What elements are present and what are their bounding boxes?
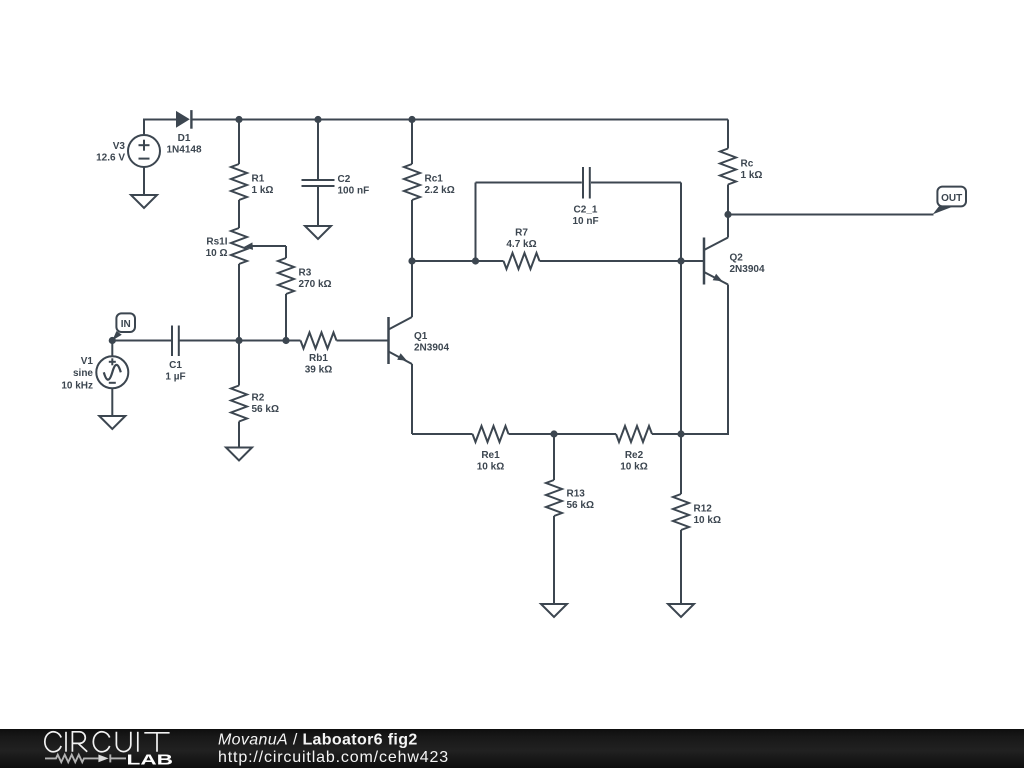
svg-text:C2_1: C2_1 [574,205,598,216]
resistor Rc 1 k [720,149,762,215]
wire V1 bottom [111,388,113,416]
logo resistor-diode [45,754,126,762]
wire top rail [191,119,728,121]
port IN [112,313,135,340]
svg-text:12.6 V: 12.6 V [96,153,125,164]
node fb-right [677,257,684,264]
transistor Q2 2N3904 [704,238,765,285]
wire IN to C1 [112,340,171,342]
svg-text:Q1: Q1 [414,331,428,342]
wire Q1 emitter [411,364,413,434]
node rail-C2 [314,116,321,123]
node rail-Rc1 [408,116,415,123]
svg-text:Rs1I: Rs1I [206,237,227,248]
resistor Rc1 2.2 k [404,120,455,262]
ground under R2 [226,448,252,461]
capacitor C2 100 nF [302,120,370,227]
ground under R12 [668,604,694,617]
wire Q2 emitter [681,285,728,435]
svg-text:MovanuA / Laboator6 fig2: MovanuA / Laboator6 fig2 [218,731,418,748]
svg-text:C2: C2 [338,174,351,185]
svg-text:Re2: Re2 [625,450,644,461]
svg-text:56 kΩ: 56 kΩ [567,500,594,511]
ground under R13 [541,604,567,617]
svg-text:2N3904: 2N3904 [730,264,765,275]
wire out [728,214,934,216]
wire Re2 to node [652,433,681,435]
svg-text:100 nF: 100 nF [338,186,370,197]
wire Rb1 to Q1 base [337,340,389,342]
resistor R2 56 k [231,341,279,448]
wire R1 to Rs1l [238,200,240,228]
svg-text:LAB: LAB [127,752,174,768]
svg-text:Re1: Re1 [481,450,500,461]
node R13 top [550,430,557,437]
svg-text:2N3904: 2N3904 [414,343,449,354]
resistor Rb1 39 k [301,333,337,376]
svg-text:1 kΩ: 1 kΩ [741,170,763,181]
wire Q2 collector [727,215,729,238]
svg-text:2.2 kΩ: 2.2 kΩ [425,185,455,196]
resistor Re1 10 k [473,426,509,473]
capacitor C1 1 uF [165,326,185,383]
capacitor C2_1 10 nF [572,167,598,227]
resistor Re2 10 k [616,426,652,473]
svg-text:V3: V3 [113,141,126,152]
wire C1 to Rb1 [179,340,301,342]
svg-text:Rc: Rc [741,159,754,170]
node IN [109,337,116,344]
svg-text:R7: R7 [515,228,528,239]
svg-text:OUT: OUT [941,193,962,204]
wire Rc1 to R7 [412,260,504,262]
svg-text:R12: R12 [694,504,713,515]
node input-R2 [235,337,242,344]
wire fb top left [476,182,582,184]
voltage source V3 12.6 V [96,135,160,167]
svg-text:1 µF: 1 µF [165,372,185,383]
svg-text:39 kΩ: 39 kΩ [305,365,332,376]
diode D1 1N4148 [166,110,201,155]
svg-text:10 kΩ: 10 kΩ [477,462,504,473]
logo CIRCUIT [45,732,170,752]
svg-text:R2: R2 [252,393,265,404]
svg-text:4.7 kΩ: 4.7 kΩ [506,239,536,250]
svg-text:Rb1: Rb1 [309,353,328,364]
wire Q1 collector [411,261,413,317]
node Rc1-R7 [408,257,415,264]
wire Q1 emitter to Re1 [412,433,473,435]
wire fb top right [591,182,681,184]
voltage source V1 sine 10 kHz [61,341,128,392]
svg-text:V1: V1 [81,356,94,367]
resistor R12 10 k [673,434,721,604]
resistor R7 4.7 k [504,228,540,270]
wire Rs1l bottom [238,264,240,341]
wire fb left vertical [475,183,477,262]
wire V3 top to rail [144,120,176,136]
resistor R1 1 k [231,120,273,201]
resistor R13 56 k [546,434,594,604]
wire fb right vertical [680,183,682,435]
node input-R3 [282,337,289,344]
svg-text:Rc1: Rc1 [425,174,444,185]
svg-text:R13: R13 [567,489,586,500]
svg-text:10 nF: 10 nF [572,216,598,227]
svg-text:270 kΩ: 270 kΩ [299,279,332,290]
transistor Q1 2N3904 [389,317,450,364]
svg-text:10 kΩ: 10 kΩ [620,462,647,473]
node fb-left [472,257,479,264]
svg-text:10 Ω: 10 Ω [206,248,228,259]
svg-text:http://circuitlab.com/cehw423: http://circuitlab.com/cehw423 [218,749,449,766]
resistor R3 270 k [278,246,332,341]
svg-text:C1: C1 [169,360,182,371]
svg-text:IN: IN [121,319,131,330]
svg-text:R3: R3 [299,268,312,279]
svg-text:1 kΩ: 1 kΩ [252,185,274,196]
ground under V1 [99,416,125,429]
potentiometer Rs1l 10 ohm [206,228,286,264]
svg-text:sine: sine [73,368,93,379]
svg-text:R1: R1 [252,174,265,185]
svg-text:1N4148: 1N4148 [166,145,201,156]
wire Re1 to R13 [509,433,617,435]
svg-text:10 kHz: 10 kHz [61,380,93,391]
port OUT [933,187,966,215]
node Rc-out [724,211,731,218]
node bottom fb [677,430,684,437]
wire R7 to Q2 base [540,260,705,262]
svg-text:Q2: Q2 [730,253,744,264]
wire rail corner to Rc [727,120,729,149]
svg-text:D1: D1 [178,133,191,144]
wire V3 bottom [143,167,145,195]
ground under C2 [305,226,331,239]
ground under V3 [131,195,157,208]
svg-text:56 kΩ: 56 kΩ [252,404,279,415]
footer bar [0,729,1024,768]
node rail-R1 [235,116,242,123]
svg-text:10 kΩ: 10 kΩ [694,515,721,526]
